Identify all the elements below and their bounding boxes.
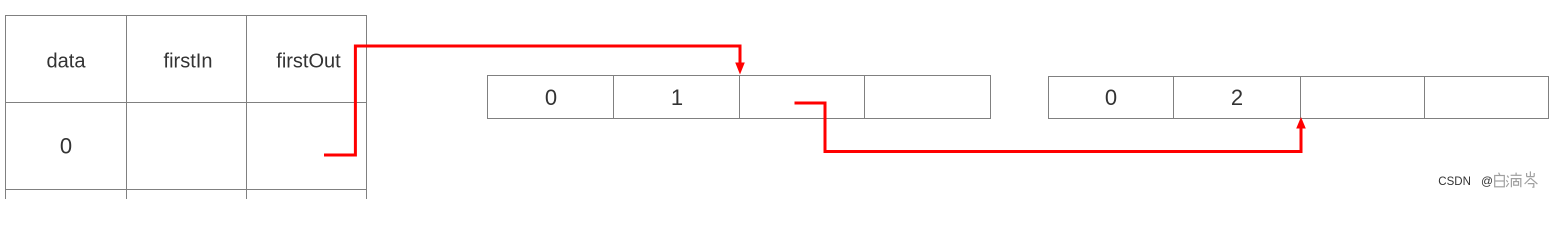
svg-text:firstOut: firstOut <box>276 51 341 73</box>
right array table grid <box>1049 77 1549 119</box>
svg-text:0: 0 <box>545 85 557 110</box>
svg-text:CSDN: CSDN <box>1438 176 1471 188</box>
svg-text:@: @ <box>1481 174 1493 188</box>
svg-text:2: 2 <box>1231 85 1243 110</box>
arrowhead down into middle array <box>735 63 745 75</box>
watermark glyph: 白 <box>1495 173 1505 187</box>
watermark glyph: 滴 <box>1506 173 1521 188</box>
svg-text:firstIn: firstIn <box>164 51 213 73</box>
svg-text:1: 1 <box>671 85 683 110</box>
watermark glyph: 岑 <box>1525 171 1538 187</box>
svg-text:0: 0 <box>60 134 72 159</box>
svg-text:0: 0 <box>1105 85 1117 110</box>
svg-text:data: data <box>47 51 87 73</box>
wire: red pointer from firstOut cell to middle array <box>324 46 740 155</box>
middle array table grid <box>488 76 991 119</box>
wire: red pointer from middle array cell 3 to right array <box>795 103 1302 152</box>
left table grid <box>5 16 367 200</box>
arrowhead up into right array <box>1296 117 1306 129</box>
